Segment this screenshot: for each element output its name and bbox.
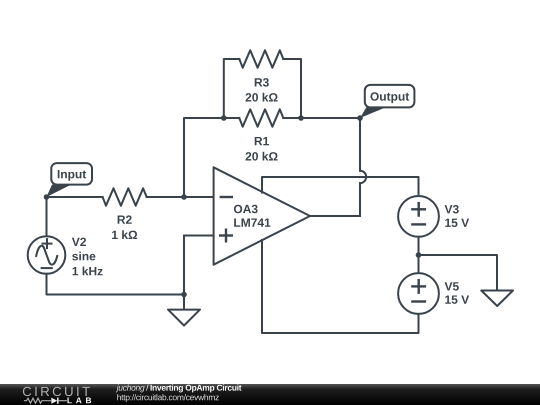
voltage source V2 bbox=[28, 236, 103, 275]
footer url text bbox=[117, 394, 219, 402]
wire R3 loop left bbox=[224, 59, 240, 118]
resistor R2 bbox=[103, 188, 147, 239]
wire op-amp output bbox=[310, 215, 360, 217]
resistor R1 bbox=[239, 109, 283, 160]
wire input node to R2 bbox=[47, 196, 103, 198]
wire V2 bottom to ground junction bbox=[47, 274, 185, 295]
footer bar bbox=[0, 384, 540, 405]
wire junction up to feedback row bbox=[184, 118, 224, 197]
CircuitLab logo bbox=[23, 387, 91, 404]
node ground junction bbox=[181, 292, 187, 298]
net flag Input bbox=[47, 163, 93, 197]
node R1 right bbox=[298, 115, 304, 121]
net flag Output bbox=[360, 85, 414, 118]
wire R2 to op-amp inverting input bbox=[147, 196, 214, 198]
wire noninverting input stub bbox=[184, 235, 214, 237]
voltage source V3 bbox=[398, 196, 469, 237]
wire V3 to V5 bbox=[418, 237, 420, 273]
voltage source V5 bbox=[398, 273, 469, 314]
node inverting input junction bbox=[181, 194, 187, 200]
wire input node to V2 top bbox=[46, 197, 48, 236]
wire feedback row right segment to output node bbox=[283, 117, 360, 119]
wire VEE pin to V5 bottom bbox=[262, 240, 419, 333]
wire feedback row left segment bbox=[224, 117, 240, 119]
ground right bbox=[481, 291, 513, 307]
wire output vertical with crossover hop bbox=[360, 118, 366, 216]
wire VCC+ pin to V3 bbox=[262, 177, 419, 196]
resistor R3 bbox=[239, 50, 283, 101]
node R1 left bbox=[221, 115, 227, 121]
wire R3 loop right bbox=[283, 59, 301, 118]
op-amp OA3 bbox=[214, 167, 310, 264]
ground left bbox=[168, 310, 200, 326]
wire junction to right ground bbox=[419, 255, 498, 291]
footer title text bbox=[116, 384, 145, 392]
node V3-V5 junction bbox=[416, 252, 422, 258]
node input bbox=[44, 194, 50, 200]
wire stub to left ground bbox=[183, 295, 185, 310]
wire noninverting input down to ground junction bbox=[183, 236, 185, 295]
node output bbox=[357, 115, 363, 121]
